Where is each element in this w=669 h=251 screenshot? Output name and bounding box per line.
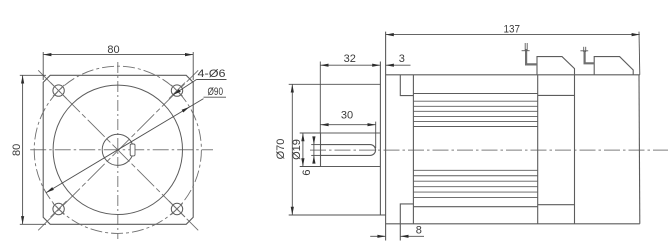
flange rear face (385, 32, 387, 241)
shaft bottom edge (321, 166, 381, 168)
svg-text:32: 32 (344, 53, 356, 65)
dimension dia90 (diagonal, front view) (46, 99, 204, 193)
shaft key flat (capsule) (321, 145, 376, 156)
body top edge (386, 74, 640, 76)
dimension dia70 (body/flange pilot) (289, 84, 386, 215)
stator fin line l3 (413, 180, 537, 182)
terminal wire 1 (526, 49, 537, 64)
stator fin line u3 (413, 110, 537, 112)
stator / rear bracket boundary (537, 75, 539, 224)
shaft end face (320, 133, 322, 167)
flange front face (379, 62, 381, 216)
motor body circle (53, 85, 182, 214)
shaft top edge (321, 132, 381, 134)
svg-text:Ø70: Ø70 (275, 139, 287, 160)
bolt hole top-right (171, 85, 182, 96)
stator fin line l2 (413, 175, 537, 177)
bolt hole bottom-left (53, 203, 64, 214)
stator fin line l1 (413, 169, 537, 171)
rear bracket register line top (538, 94, 575, 96)
leader 4-dia6 (front view) (173, 80, 197, 95)
horizontal centerline of side view (310, 149, 668, 151)
front end-bell groove bottom (400, 204, 413, 241)
svg-text:4-Ø6: 4-Ø6 (198, 68, 226, 80)
bolt hole bottom-right (171, 203, 182, 214)
stator fin line l4 (413, 186, 537, 188)
fin block outline bottom (413, 206, 537, 208)
dimension 32 (shaft extension) (320, 62, 380, 134)
solid diagonal segment through bottom-left hole (51, 201, 67, 217)
svg-text:80: 80 (11, 144, 23, 156)
tick through bottom-left hole (53, 203, 64, 214)
svg-text:8: 8 (416, 225, 422, 237)
fin block outline top (413, 93, 537, 95)
dimension 3 (flange thickness) (386, 64, 411, 66)
tick through top-left hole (53, 85, 64, 96)
terminal block 2 (594, 57, 633, 75)
stator fin line l6 (413, 197, 537, 199)
front end-bell groove top (400, 75, 413, 96)
keyway rectangle (130, 144, 135, 156)
stator fin line u6 (413, 126, 537, 128)
shaft hub circle (102, 134, 133, 165)
svg-text:Ø90: Ø90 (208, 86, 224, 98)
solid diagonal segment through top-left hole (51, 83, 67, 99)
front housing / stator boundary (412, 75, 414, 224)
horizontal centerline of front view (30, 149, 213, 151)
diagonal centerline TL-BR (38, 70, 198, 230)
body bottom edge (386, 223, 640, 225)
stator fin line u2 (413, 105, 537, 107)
stator fin line u5 (413, 120, 537, 122)
bolt hole top-left (53, 85, 64, 96)
bolt circle (dia 90, dash-dot) (34, 66, 201, 233)
svg-text:80: 80 (107, 44, 119, 56)
svg-text:3: 3 (399, 53, 405, 65)
rear bracket register line bottom (538, 204, 575, 206)
vertical centerline of front view (117, 62, 119, 239)
solid diagonal segment through top-right hole (169, 83, 185, 99)
stator fin line l5 (413, 191, 537, 193)
dimension 80 (top, front view) (43, 52, 193, 80)
body right edge (638, 75, 641, 224)
dimension 30 (key flat length) (320, 122, 375, 148)
terminal block 1 (537, 57, 575, 75)
dimension 137 (top, side view) (386, 32, 640, 75)
stator fin line u1 (413, 100, 537, 102)
stator fin line u4 (413, 115, 537, 117)
terminal wire 2 (585, 51, 595, 64)
svg-text:137: 137 (504, 24, 521, 36)
dimension 8 (end-bell depth, bottom) (370, 235, 424, 237)
svg-text:Ø19: Ø19 (291, 139, 303, 160)
tick through bottom-right hole (171, 203, 182, 214)
dimension 80 (left, front view) (20, 75, 46, 224)
solid diagonal segment through bottom-right hole (169, 201, 185, 217)
rear bracket / end cap boundary (574, 75, 576, 224)
diagonal centerline BL-TR (38, 70, 198, 230)
dimension 6 (key flat width) (311, 137, 321, 164)
flange square outline with chamfered corners (43, 75, 193, 224)
svg-text:30: 30 (341, 110, 353, 122)
tick through top-right hole (171, 85, 182, 96)
svg-text:6: 6 (301, 169, 313, 175)
dimension dia19 (shaft) (300, 133, 321, 167)
